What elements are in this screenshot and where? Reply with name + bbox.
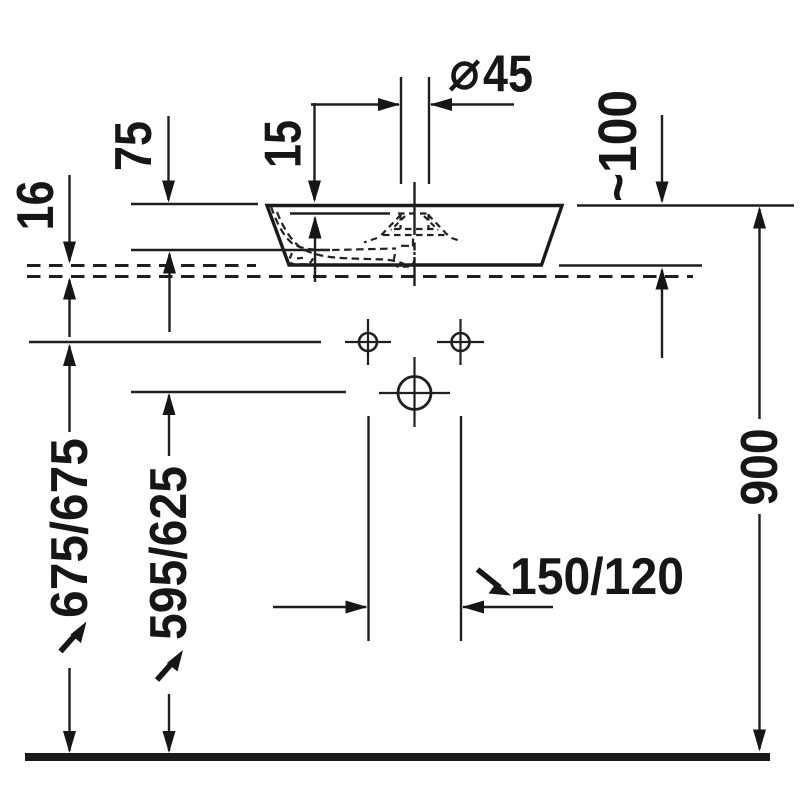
dimension 675/675 : upper arrow bbox=[63, 344, 76, 432]
dimension ø45 : left extension line bbox=[400, 77, 402, 184]
dimension 75 : upper arrow bbox=[162, 116, 175, 203]
dimension 15 : lower arrow bbox=[309, 216, 322, 283]
dimension 16 : upper arrow bbox=[63, 175, 76, 264]
rim level reference line left bbox=[131, 203, 258, 205]
svg-text:~100: ~100 bbox=[588, 90, 648, 202]
countertop lower dashed line bbox=[27, 275, 693, 278]
extension line left for 150/120 bbox=[367, 416, 369, 641]
faucet hole hidden contour: wall left bbox=[399, 214, 401, 229]
dimension 150/120 : left arrow bbox=[273, 601, 368, 614]
basin outline bbox=[267, 206, 562, 266]
extension line right for 150/120 bbox=[460, 416, 462, 641]
dimension 15 : upper arrow bbox=[308, 103, 321, 203]
faucet hole hidden contour: wall right bbox=[427, 214, 429, 229]
faucet hole circle right bbox=[437, 319, 484, 365]
svg-text:675/675: 675/675 bbox=[41, 438, 99, 618]
svg-text:595/625: 595/625 bbox=[140, 466, 198, 640]
dimension ø45 : left dimension line with arrow bbox=[311, 98, 400, 111]
countertop surface line right of basin bbox=[559, 264, 702, 266]
svg-text:75: 75 bbox=[105, 121, 163, 171]
dimension 150/120 : right arrow bbox=[462, 601, 553, 614]
dimension 595/625 : upper arrow bbox=[163, 393, 176, 456]
faucet holes level line bbox=[29, 341, 321, 343]
basin interior corner dash near centre bbox=[401, 239, 413, 251]
rim level reference line right bbox=[577, 204, 794, 206]
faucet hole hidden contour: inner slope right bbox=[424, 216, 438, 230]
faucet hole hidden contour: mid row bbox=[394, 228, 434, 230]
dimension ~100 : upper arrow bbox=[656, 115, 669, 204]
leader arrow for 675/675 bbox=[61, 622, 87, 652]
dimension 900 : upper arrow bbox=[753, 207, 766, 420]
svg-text:45: 45 bbox=[483, 46, 533, 104]
dimension ø45 : right extension line bbox=[428, 77, 430, 184]
faucet hole hidden contour: outer slope right bbox=[428, 215, 462, 242]
svg-text:150/120: 150/120 bbox=[510, 548, 684, 606]
countertop surface line through basin bbox=[131, 249, 330, 251]
basin interior drain pocket center dashed bbox=[394, 252, 415, 267]
basin interior left wall dashed contour B bbox=[277, 212, 404, 264]
faucet centre line bbox=[413, 182, 415, 286]
svg-text:15: 15 bbox=[255, 120, 313, 168]
dimension 16 : lower arrow bbox=[63, 278, 76, 338]
dimension 75 : lower arrow bbox=[163, 252, 176, 333]
faucet hole hidden contour: outer slope left bbox=[364, 215, 401, 243]
svg-text:16: 16 bbox=[7, 181, 65, 231]
dimension ø45 : right dimension line with arrow bbox=[430, 98, 514, 111]
basin interior left wall dashed contour A bbox=[271, 207, 396, 251]
floor line bbox=[25, 753, 770, 761]
faucet hole hidden contour: inner slope left bbox=[391, 216, 405, 230]
label ø45 diameter symbol bbox=[451, 61, 479, 90]
countertop upper dashed line bbox=[27, 264, 256, 267]
basin inner rim line bbox=[290, 212, 390, 214]
drain hole circle bbox=[379, 357, 450, 427]
faucet hole circle left bbox=[345, 319, 391, 365]
dimension 675/675 : lower arrow bbox=[63, 668, 76, 753]
basin interior drain pocket left dashed bbox=[290, 253, 314, 265]
faucet hole hidden contour: top row bbox=[398, 212, 431, 214]
dimension 595/625 : lower arrow bbox=[163, 694, 176, 753]
leader arrow for 150/120 bbox=[478, 570, 512, 596]
drain level line bbox=[131, 391, 346, 393]
dimension ~100 : lower arrow bbox=[656, 268, 669, 359]
faucet hole hidden contour: low row bbox=[383, 234, 446, 236]
svg-text:900: 900 bbox=[731, 429, 789, 506]
dimension 900 : lower arrow bbox=[753, 514, 766, 752]
leader arrow for 595/625 bbox=[157, 650, 183, 680]
basin interior drain pocket left inner dash bbox=[297, 258, 306, 259]
